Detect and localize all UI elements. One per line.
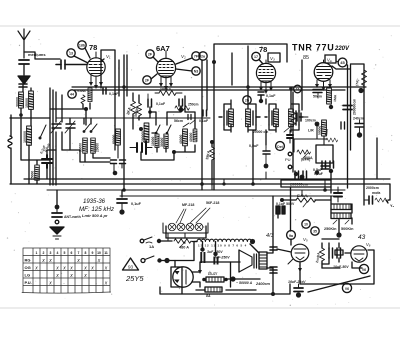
svg-text:0,1uF: 0,1uF (131, 202, 142, 206)
svg-text:MF-218: MF-218 (182, 203, 194, 207)
rectifier tube (173, 267, 193, 287)
svg-text:mediums: mediums (28, 52, 46, 57)
svg-text:(7A): (7A) (355, 79, 360, 86)
IFT2 left cap (265, 111, 272, 125)
svg-text:V₁: V₁ (106, 54, 111, 59)
svg-text:50cm: 50cm (313, 95, 322, 99)
lamp 3 (186, 223, 194, 231)
electro cap C-3uF (200, 247, 205, 263)
speaker cone (239, 250, 252, 272)
ground G2 (50, 227, 64, 239)
svg-text:40000: 40000 (189, 132, 193, 142)
resistor R-20000 hatched (144, 123, 149, 142)
svg-text:10: 10 (97, 251, 101, 255)
trimmer 56cm (174, 119, 189, 127)
svg-text:10uF-50V: 10uF-50V (333, 265, 349, 269)
svg-text:Det: Det (277, 145, 283, 149)
svg-text:x: x (55, 273, 59, 279)
capacitor C-01f (321, 163, 329, 169)
svg-text:N3: N3 (194, 70, 199, 74)
capacitor C-v4a (343, 106, 352, 110)
output transformer (259, 252, 267, 269)
wire bus cap (121, 190, 123, 197)
wire right column stub (359, 120, 361, 133)
svg-text:ANT-earth: ANT-earth (64, 215, 81, 219)
svg-text:85: 85 (303, 55, 309, 61)
ref circle 35 (311, 227, 319, 235)
osc wires (137, 96, 195, 152)
tube V4 (314, 60, 333, 81)
diagonal wire (308, 276, 370, 292)
svg-text:Buzr: Buzr (208, 271, 218, 276)
svg-text:45: 45 (340, 60, 345, 65)
svg-text:2F: 2F (148, 53, 153, 57)
tube V5 (291, 244, 309, 262)
junction dot (315, 122, 320, 127)
svg-text:240cm: 240cm (353, 117, 364, 121)
svg-text:RG: RG (25, 258, 31, 263)
switch mains-b (141, 256, 170, 263)
svg-text:2KA: 2KA (126, 107, 132, 116)
ground chain wire (56, 190, 58, 205)
mid vertical 230 (230, 262, 232, 287)
padder capacitor (42, 155, 52, 168)
svg-text:2: 2 (43, 251, 45, 255)
svg-text:P.U.: P.U. (25, 280, 32, 285)
bottom rail (160, 284, 290, 294)
junction dot (212, 60, 216, 64)
tube V4 pins (315, 80, 332, 91)
resistor R-40000 hatched (193, 129, 197, 142)
wire padder to bus (47, 150, 56, 179)
divider wires (331, 171, 352, 233)
svg-text:~ 50000 A: ~ 50000 A (236, 281, 253, 285)
IFT2 wires (269, 88, 299, 132)
wire antenna tap to grid cap (24, 52, 60, 59)
resistor R-osc3 horizontal zig (175, 106, 189, 111)
resistor R-era zig (280, 198, 331, 207)
svg-text:x: x (104, 266, 108, 272)
lamp 4 (195, 223, 203, 231)
svg-text:200000cm: 200000cm (353, 99, 357, 115)
AVC bus double line (72, 87, 366, 90)
lamp 1 (168, 223, 176, 231)
svg-text:13b: 13b (79, 44, 86, 48)
switch sw2 (155, 125, 160, 134)
blob dot (119, 209, 124, 214)
svg-text:20000: 20000 (96, 143, 100, 152)
wire right-bottom (377, 138, 390, 203)
tube V3 (256, 60, 275, 83)
svg-text:9: 9 (92, 251, 94, 255)
svg-text:x: x (48, 281, 52, 287)
capacitor C-sp1 (270, 247, 277, 250)
capacitor C-ant (19, 60, 29, 64)
resistor R-pi zig vertical (320, 243, 325, 268)
svg-text:1MA: 1MA (333, 94, 337, 102)
IFT1 wires (224, 46, 256, 132)
capacitor C-bus (117, 199, 127, 210)
capacitor C-338 (334, 187, 342, 202)
svg-text:50000: 50000 (318, 126, 322, 135)
ref circle 17 (252, 52, 263, 64)
lamp labels (176, 201, 219, 223)
bus ticks (124, 172, 325, 196)
capacitor C-osc1 (148, 94, 152, 107)
capacitor C-ps1 (322, 161, 326, 168)
tube V1 pins (89, 75, 103, 89)
svg-text:V₂: V₂ (181, 54, 186, 59)
svg-text:30000: 30000 (16, 97, 20, 107)
svg-text:250cm: 250cm (188, 103, 199, 107)
page bottom edge (0, 307, 400, 309)
junction dot (358, 88, 363, 93)
svg-text:2F: 2F (145, 79, 150, 83)
capacitor C-pi2 (337, 248, 341, 258)
svg-text:mofa: mofa (372, 191, 380, 195)
svg-text:10: 10 (304, 223, 308, 227)
capacitor C-left-top (19, 84, 27, 87)
junction dot (230, 276, 235, 281)
tube V5 pins (288, 259, 302, 272)
ref circle 44 (68, 90, 76, 98)
svg-text:V₄: V₄ (327, 58, 332, 63)
junction dot (55, 205, 60, 210)
svg-text:78: 78 (89, 43, 97, 52)
svg-text:220V: 220V (334, 46, 350, 52)
svg-text:Y₆: Y₆ (390, 204, 395, 208)
svg-text:0,1uF: 0,1uF (109, 92, 119, 96)
svg-text:17: 17 (254, 55, 258, 59)
resistor R-right-bottom zig (375, 198, 389, 202)
blob dot (300, 175, 305, 180)
svg-text:0,1uF: 0,1uF (199, 119, 209, 123)
svg-text:L/R: L/R (308, 129, 314, 133)
resistor R-30000 hatched (164, 134, 168, 148)
svg-text:1A: 1A (149, 244, 154, 249)
svg-text:500Kin: 500Kin (341, 227, 354, 231)
svg-text:78: 78 (259, 45, 267, 54)
svg-text:13: 13 (69, 52, 73, 56)
svg-text:0,5uF: 0,5uF (249, 144, 259, 148)
svg-text:0,5uF: 0,5uF (313, 168, 323, 172)
tube V1 (87, 52, 105, 76)
resistor R-sw2 hatched (91, 138, 96, 153)
capacitor C-ps2 (330, 161, 334, 168)
wire y139 (294, 124, 327, 152)
wire mains to rectifier (174, 261, 176, 268)
rheostat 480 (174, 239, 191, 247)
bus line 4 (120, 195, 335, 197)
capacitor C-right-bottom (364, 196, 373, 204)
svg-text:250Kin: 250Kin (324, 227, 337, 231)
page top edge (0, 25, 400, 27)
wire v-drop 273 (272, 196, 274, 247)
svg-text:V₃: V₃ (270, 56, 275, 61)
ref circle 10b (302, 220, 310, 228)
resistor R-det zig horizontal (297, 150, 311, 158)
rail junction dot (271, 292, 275, 296)
capacitor C-16uF (294, 284, 303, 292)
svg-text:7F: 7F (194, 55, 199, 59)
svg-text:100000: 100000 (23, 131, 27, 143)
wire x10 column (11, 115, 37, 184)
voice coil bars (254, 254, 257, 268)
svg-text:1: 1 (36, 251, 38, 255)
svg-text:13 12 11 10 9 8 7 6 5 4: 13 12 11 10 9 8 7 6 5 4 (198, 244, 247, 248)
svg-text:x: x (76, 258, 80, 264)
junction dots audio (294, 170, 319, 176)
svg-text:MF: 125 kHz: MF: 125 kHz (79, 206, 115, 213)
svg-text:x: x (55, 266, 59, 272)
svg-text:x: x (62, 266, 66, 272)
capacitor C-left-v3 (203, 110, 207, 116)
svg-text:93: 93 (128, 265, 134, 270)
scan speckle noise (7, 33, 393, 306)
svg-text:15000: 15000 (25, 98, 29, 108)
svg-text:1935-36: 1935-36 (83, 199, 106, 205)
wire under R60000 (117, 145, 119, 158)
horizontal link y118 (10, 117, 50, 119)
capacitor C-pu2 (303, 171, 307, 179)
variable capacitor CV1 (51, 121, 61, 133)
svg-text:4: 4 (57, 251, 59, 255)
capacitor C-v3 (258, 92, 264, 99)
wire second column (29, 88, 31, 184)
IFT2 right cap (296, 111, 303, 125)
left column wire (21, 85, 50, 160)
resistor R-left4 (35, 165, 40, 180)
svg-text:100KA: 100KA (160, 88, 172, 92)
svg-text:6A7: 6A7 (156, 44, 170, 53)
resistor R-50000b hatched tall (183, 129, 188, 146)
svg-text:x: x (69, 273, 73, 279)
resistor R-sw1 hatched (83, 138, 88, 153)
ref circle TF (176, 52, 200, 64)
switch sw1 (83, 124, 90, 133)
svg-text:x: x (48, 258, 52, 264)
resistor R-60000 hatched (116, 129, 121, 145)
field coil box 200000cm (281, 180, 331, 187)
resistor R-10000 hatched (155, 134, 159, 148)
IFT1 right coil hatched (246, 109, 251, 127)
wire caps down (114, 164, 122, 174)
junction dot (157, 239, 161, 243)
svg-text:x: x (69, 266, 73, 272)
IFT1 left cap (219, 111, 227, 125)
svg-text:44: 44 (70, 93, 74, 97)
rectifier wires (182, 262, 240, 294)
blob dot (259, 99, 263, 103)
svg-text:30000: 30000 (160, 137, 164, 147)
label V1 (101, 54, 111, 61)
svg-text:5: 5 (64, 251, 66, 255)
svg-text:x: x (34, 266, 38, 272)
svg-text:10000: 10000 (151, 136, 155, 146)
svg-text:0,1uF: 0,1uF (266, 94, 276, 98)
bus junction dots (122, 85, 327, 192)
box audio (316, 145, 333, 163)
valve table (22, 248, 111, 293)
switch mains-a (140, 237, 152, 243)
svg-text:1MA: 1MA (324, 128, 329, 136)
capacitor C-gnd (52, 209, 62, 217)
svg-text:200000cm: 200000cm (290, 183, 309, 187)
electro cap C-4uF (213, 252, 218, 265)
V3 stage box (214, 44, 287, 190)
label V2 (181, 54, 186, 59)
resistor R-left1 30000 (19, 92, 24, 108)
wire circled94 to V5 (290, 187, 293, 245)
svg-text:3: 3 (50, 251, 52, 255)
wire to rheostat (161, 240, 172, 242)
IFT2 right coil hatched (289, 109, 294, 127)
resistor R-1M hatched (327, 88, 332, 104)
blob dot (296, 292, 301, 297)
tube V2 (156, 51, 175, 78)
switch sw3 (166, 125, 171, 134)
resistor R-osc2 50000 vertical zig (137, 95, 142, 120)
ref circle V6b (359, 264, 368, 273)
variable capacitor CV2 (65, 121, 75, 133)
divider resistor box 2 (331, 213, 351, 219)
pi wires (322, 239, 351, 268)
blob dot (329, 169, 333, 173)
lamp 2 (177, 223, 185, 231)
coil end dot (250, 239, 255, 244)
transformer wires (267, 247, 273, 294)
V3 label box (268, 53, 280, 62)
svg-text:TNR 77U: TNR 77U (292, 43, 334, 53)
wire CV2 (62, 118, 70, 150)
ref circle V6c (342, 283, 351, 292)
switch band (39, 125, 47, 140)
capacitor C-det hatched (287, 130, 293, 143)
svg-text:6: 6 (71, 251, 73, 255)
capacitor C-pi1 (329, 248, 333, 258)
svg-text:25Y5: 25Y5 (125, 274, 144, 283)
capacitor C-240 (355, 124, 363, 128)
tuning gang vertical wires (50, 88, 62, 185)
small box pi (335, 250, 343, 255)
wire rheostat to coil (192, 241, 197, 243)
wires sw block (70, 118, 110, 162)
ref circle 2a (199, 52, 207, 60)
jack PU circle2 (288, 165, 292, 169)
svg-text:8A: 8A (206, 294, 211, 298)
junction dot (148, 110, 152, 114)
stage box V1 verticals (101, 50, 127, 190)
resistor R-buzr hatched horizontal (202, 277, 228, 282)
ref circle 2F (143, 74, 157, 84)
IFT1 left coil hatched (229, 109, 234, 127)
ref circle 2b (243, 96, 251, 104)
electro cap blob (276, 206, 285, 218)
svg-text:15KA: 15KA (205, 150, 211, 160)
resistor R-avc zig vertical (291, 112, 296, 125)
osc coil wire drop (141, 152, 174, 160)
capacitor C-af (263, 145, 270, 164)
svg-text:60000: 60000 (112, 134, 116, 144)
svg-text:11: 11 (104, 251, 108, 255)
svg-text:56F-218: 56F-218 (206, 201, 219, 205)
ref circle 21 (146, 50, 158, 62)
svg-text:LG: LG (25, 273, 31, 278)
svg-text:x: x (83, 266, 87, 272)
capacitor C-mid2 (120, 160, 126, 164)
svg-text:8: 8 (85, 251, 87, 255)
svg-text:2400cm: 2400cm (255, 282, 271, 286)
ref circle det (276, 142, 285, 151)
wire lampbox drop (168, 233, 185, 241)
trimmer cap small (188, 115, 195, 125)
svg-text:x: x (90, 266, 94, 272)
wire antenna to ground (23, 64, 25, 75)
svg-text:2a: 2a (201, 55, 206, 59)
junction dot (113, 171, 118, 176)
svg-text:480 A: 480 A (179, 246, 189, 250)
bus line 1 (24, 178, 390, 180)
capacitor C-mid1 (111, 160, 117, 164)
svg-text:16uF-25xV: 16uF-25xV (288, 280, 306, 284)
junction dot (329, 105, 333, 109)
svg-text:9a: 9a (289, 234, 294, 238)
svg-text:x: x (41, 258, 45, 264)
junction dot (336, 232, 341, 237)
svg-text:35: 35 (313, 230, 317, 234)
capacitor C-grid-v4 (297, 113, 308, 121)
blob dot (264, 164, 269, 169)
tube V2 pins (159, 76, 173, 90)
output enclosure lines (300, 250, 374, 284)
IFT2 left coil hatched (274, 109, 279, 127)
padder capacitor osc (130, 141, 152, 154)
svg-text:7: 7 (78, 251, 80, 255)
svg-text:V6: V6 (362, 268, 366, 272)
bus y118 (56, 117, 210, 119)
ref circle 13 (67, 49, 88, 63)
lamp housing (166, 226, 206, 238)
zigzag under 1M (326, 138, 338, 142)
junction dot (139, 127, 143, 131)
capacitor C-k1 (103, 88, 106, 94)
svg-text:PU: PU (285, 157, 291, 162)
small cap 340 (341, 122, 345, 129)
lamp housing box (163, 223, 208, 233)
wire coil left down (169, 242, 216, 261)
svg-text:43: 43 (358, 234, 366, 241)
svg-text:Lmtr 500 A pr: Lmtr 500 A pr (82, 213, 108, 218)
resistor R-left3 100000 (27, 126, 32, 145)
resistor R-100K horizontal zig (155, 91, 182, 96)
resistor R-15K vertical zig (210, 142, 215, 185)
V4 stage wires (293, 60, 364, 205)
svg-text:x: x (97, 258, 101, 264)
svg-text:200000: 200000 (141, 131, 145, 142)
resistor R-k1 zig (81, 95, 85, 108)
svg-text:V6: V6 (345, 287, 349, 291)
svg-text:100cm: 100cm (305, 119, 316, 123)
antenna A1 (18, 29, 30, 58)
lamp wires (168, 226, 204, 228)
svg-text:40000: 40000 (179, 134, 183, 144)
wire cap to V5 grid (277, 249, 291, 252)
wire coil to transformer (250, 244, 259, 253)
resistor R-17 vertical zig (362, 70, 367, 86)
ref circle 16 (294, 85, 302, 93)
resistor R-low hatched horizontal (205, 287, 222, 292)
capacitor C-sp2 (270, 267, 277, 273)
